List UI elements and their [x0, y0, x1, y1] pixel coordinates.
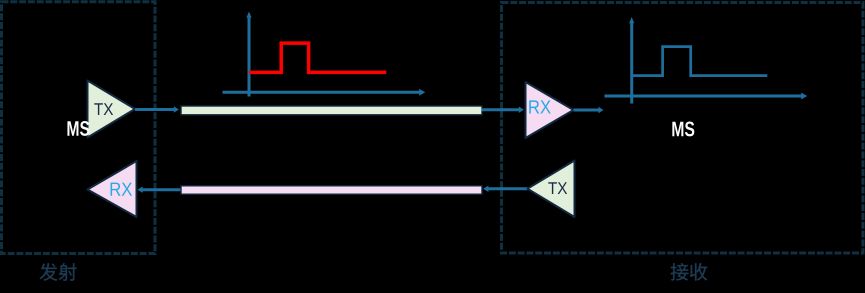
red pulse signal [249, 43, 386, 72]
label 发射 [40, 263, 77, 281]
wire RX output arrow [574, 107, 604, 113]
RX amplifier (bottom-left, pointing left) [88, 161, 137, 217]
right waveform horizontal axis [605, 93, 808, 100]
TX amplifier (top-left) [88, 81, 136, 138]
label 接收 [671, 263, 708, 281]
wire TX output arrow [135, 106, 179, 112]
wire into bottom RX arrow (leftward) [137, 187, 181, 193]
left waveform horizontal axis [223, 89, 426, 96]
RX amplifier (top-right) [526, 82, 574, 138]
left waveform vertical axis [246, 12, 251, 97]
wire from bottom TX arrow (leftward) [483, 186, 527, 192]
transmit box (dashed) [2, 2, 156, 254]
received pulse signal (teal) [632, 47, 768, 76]
TX amplifier (bottom-right, pointing left) [528, 161, 575, 218]
label MS (right) [672, 122, 694, 137]
right waveform vertical axis [629, 17, 634, 104]
return transmission line (pale pink bar) [181, 186, 482, 194]
receive box (dashed) [502, 3, 864, 254]
label MS (left) [67, 121, 89, 136]
forward transmission line (pale green bar) [181, 106, 482, 115]
wire into RX arrow [482, 107, 524, 113]
